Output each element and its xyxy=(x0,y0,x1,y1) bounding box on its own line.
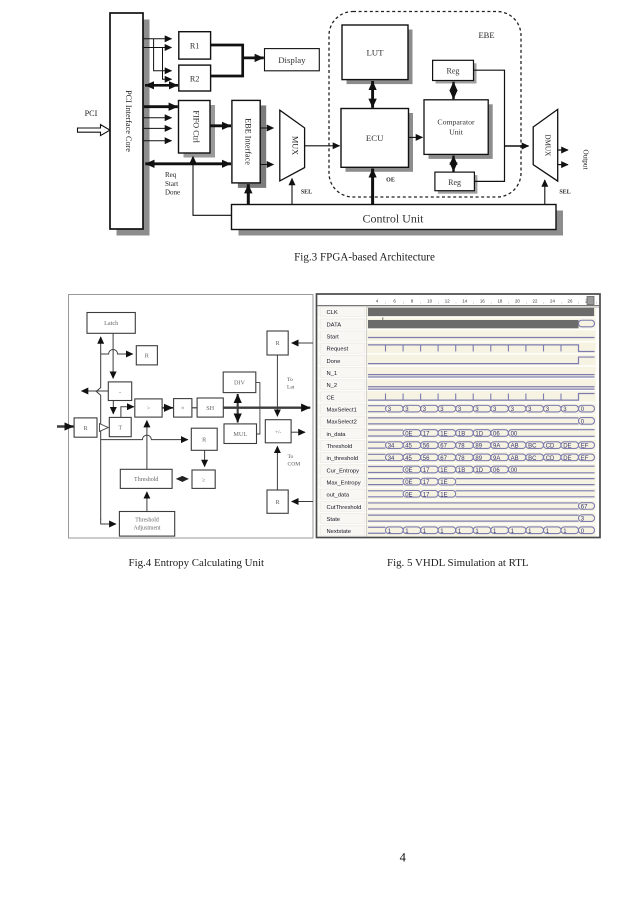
svg-text:in_data: in_data xyxy=(327,432,347,438)
svg-text:DE: DE xyxy=(563,456,571,462)
block ECU xyxy=(341,109,413,172)
wire R down to adder xyxy=(276,355,278,416)
svg-text:DE: DE xyxy=(563,444,571,450)
svg-text:,: , xyxy=(508,299,509,304)
block R1 xyxy=(179,32,211,59)
wire gt to multiplier xyxy=(162,407,173,409)
wire R middle down to gte xyxy=(204,450,206,466)
svg-text:20: 20 xyxy=(515,299,520,304)
svg-text:≥: ≥ xyxy=(202,477,205,483)
svg-text:1D: 1D xyxy=(475,468,483,474)
block DIV xyxy=(223,372,256,393)
block LUT xyxy=(342,25,413,84)
signal Threshold xyxy=(368,442,595,450)
block Comparator Unit xyxy=(424,100,493,159)
block R bottom right xyxy=(267,490,288,513)
wire Latch down to subtractor xyxy=(112,333,114,378)
wire EBE Interface to MUX 1 xyxy=(260,127,273,129)
svg-text:78: 78 xyxy=(458,444,465,450)
svg-text:DMUX: DMUX xyxy=(544,134,552,157)
wire FIFO to EBE Interface xyxy=(211,124,232,127)
svg-text:Done: Done xyxy=(327,359,341,365)
block R middle xyxy=(191,428,217,450)
block Threshold xyxy=(120,469,172,488)
wire branch to R2 input 1 xyxy=(154,39,172,71)
svg-text:CE: CE xyxy=(327,395,335,401)
block FIFO Ctrl xyxy=(179,101,216,158)
wire PCI core to R1 input 1 xyxy=(144,38,172,40)
label To Lat xyxy=(287,377,295,391)
svg-text:,: , xyxy=(543,299,544,304)
svg-text:MUL: MUL xyxy=(233,431,247,438)
svg-text:+/-: +/- xyxy=(275,429,282,435)
svg-text:ECU: ECU xyxy=(366,133,384,143)
svg-text:Max_Entropy: Max_Entropy xyxy=(327,480,361,486)
block R after latch xyxy=(136,346,157,365)
block Threshold Adjustment xyxy=(119,512,174,537)
block R to latch top right xyxy=(267,331,288,355)
svg-text:45: 45 xyxy=(405,444,412,450)
block Control Unit xyxy=(232,205,564,236)
svg-text:Start: Start xyxy=(327,335,340,341)
wire ECU to Comparator xyxy=(409,136,423,138)
fig5 signal names xyxy=(321,307,365,536)
svg-text:BC: BC xyxy=(528,444,537,450)
svg-text:,: , xyxy=(526,299,527,304)
svg-text:out_data: out_data xyxy=(327,493,350,499)
svg-text:26: 26 xyxy=(568,299,573,304)
signal in_data xyxy=(368,430,595,438)
svg-text:AB: AB xyxy=(511,444,519,450)
wire R1 R2 outputs join xyxy=(211,45,243,76)
svg-text:AB: AB xyxy=(511,456,519,462)
signal MaxSelect2 xyxy=(368,418,595,426)
signal MaxSelect1 xyxy=(368,405,595,413)
svg-text:,: , xyxy=(578,299,579,304)
signal Done xyxy=(368,357,595,364)
svg-text:SEL: SEL xyxy=(559,190,570,196)
svg-text:17: 17 xyxy=(423,480,430,486)
block multiplier xyxy=(174,399,192,418)
svg-text:CD: CD xyxy=(546,456,555,462)
svg-text:,: , xyxy=(473,299,474,304)
label SEL under DMUX xyxy=(559,190,570,196)
svg-text:MaxSelect2: MaxSelect2 xyxy=(327,420,357,426)
svg-text:in_threshold: in_threshold xyxy=(327,456,359,462)
svg-text:LUT: LUT xyxy=(366,48,384,58)
wire R bottom up to adder xyxy=(276,446,278,490)
svg-text:MUX: MUX xyxy=(291,136,300,155)
svg-text:Fig.3 FPGA-based Architecture: Fig.3 FPGA-based Architecture xyxy=(294,252,435,264)
wire multiplier to SH xyxy=(192,407,197,409)
caption Fig.3 xyxy=(294,252,435,264)
svg-text:CutThreshold: CutThreshold xyxy=(327,505,362,511)
svg-text:To: To xyxy=(287,377,293,383)
svg-text:Request: Request xyxy=(327,347,349,353)
svg-text:56: 56 xyxy=(423,456,430,462)
svg-text:FIFO Ctrl: FIFO Ctrl xyxy=(191,110,200,143)
wire Threshold gte bidirectional xyxy=(177,478,189,480)
signal N_1 xyxy=(368,375,595,377)
svg-text:17: 17 xyxy=(423,468,430,474)
svg-text:22: 22 xyxy=(533,299,538,304)
signal CLK xyxy=(368,308,594,316)
svg-text:16: 16 xyxy=(480,299,485,304)
signal N_2 xyxy=(368,387,595,389)
fig4 frame xyxy=(69,295,314,539)
svg-text:Control Unit: Control Unit xyxy=(362,212,424,226)
svg-text:24: 24 xyxy=(550,299,555,304)
block T xyxy=(109,417,131,436)
caption Fig.5 xyxy=(387,557,529,569)
wire Control Unit to DMUX select xyxy=(544,180,546,206)
block comparator gt xyxy=(135,399,162,417)
svg-text:PCI: PCI xyxy=(85,109,98,118)
svg-text:17: 17 xyxy=(423,492,430,498)
block subtractor xyxy=(108,382,131,401)
wire subtractor to T xyxy=(112,401,114,414)
svg-text:1B: 1B xyxy=(458,432,465,438)
svg-text:N_1: N_1 xyxy=(327,371,338,377)
svg-text:00: 00 xyxy=(511,468,518,474)
svg-text:10: 10 xyxy=(427,299,432,304)
svg-text:SH: SH xyxy=(206,405,214,412)
wire DIV MUL bidirectional xyxy=(237,394,239,423)
svg-text:89: 89 xyxy=(475,456,482,462)
open arrow R to T xyxy=(100,424,109,432)
signal State xyxy=(368,515,595,523)
label Output xyxy=(582,150,590,170)
wire subtractor output to left xyxy=(82,390,109,392)
svg-text:34: 34 xyxy=(388,456,395,462)
block SH xyxy=(197,398,223,417)
svg-text:,: , xyxy=(420,299,421,304)
mux MUX xyxy=(280,110,305,181)
svg-text:EF: EF xyxy=(581,456,589,462)
label SEL under MUX xyxy=(301,190,312,196)
svg-text:COM: COM xyxy=(288,462,301,468)
wire PCI core to FIFO thin 2 xyxy=(144,127,172,129)
caption Fig.4 xyxy=(129,557,265,569)
svg-text:OE: OE xyxy=(386,178,395,184)
svg-text:,: , xyxy=(561,299,562,304)
svg-text:BC: BC xyxy=(528,456,537,462)
svg-text:EBE: EBE xyxy=(478,30,494,40)
signal in_threshold xyxy=(368,454,595,462)
svg-text:PCI Interface Core: PCI Interface Core xyxy=(124,90,133,152)
wire PCI core to FIFO thin 3 xyxy=(144,140,172,142)
svg-text:DATA: DATA xyxy=(327,322,342,328)
svg-text:,: , xyxy=(490,299,491,304)
svg-text:34: 34 xyxy=(388,444,395,450)
fig5 frame xyxy=(317,294,601,538)
svg-text:78: 78 xyxy=(458,456,465,462)
svg-text:Threshold: Threshold xyxy=(134,477,158,483)
fig5 timeline header xyxy=(318,297,600,308)
wire branch to R2 input 2 xyxy=(163,48,172,80)
wire long branch to R middle with hop xyxy=(101,435,188,440)
svg-text:1E: 1E xyxy=(440,432,447,438)
svg-text:1E: 1E xyxy=(440,468,447,474)
svg-text:Display: Display xyxy=(278,55,306,65)
wire Comparator Reg bottom bidirectional xyxy=(452,156,454,172)
wire feedback up into Latch xyxy=(96,337,101,520)
svg-text:CLK: CLK xyxy=(327,310,338,316)
svg-text:45: 45 xyxy=(405,456,412,462)
svg-text:Reg: Reg xyxy=(448,178,461,187)
svg-text:Nextstate: Nextstate xyxy=(327,529,352,535)
svg-text:9A: 9A xyxy=(493,444,500,450)
signal CutThreshold xyxy=(368,503,595,511)
svg-text:Unit: Unit xyxy=(449,128,464,137)
wire Control Unit to EBE Interface xyxy=(247,184,250,205)
svg-text:,: , xyxy=(438,299,439,304)
wire FIFO to Control Unit xyxy=(193,157,232,216)
svg-text:R1: R1 xyxy=(190,42,200,51)
svg-text:12: 12 xyxy=(445,299,450,304)
svg-text:Reg: Reg xyxy=(447,67,460,76)
block Reg bottom xyxy=(435,172,478,194)
svg-text:N_2: N_2 xyxy=(327,383,338,389)
block gte comparator xyxy=(192,470,215,488)
svg-text:SEL: SEL xyxy=(301,190,312,196)
page number xyxy=(400,851,407,865)
block EBE Interface xyxy=(232,100,266,187)
svg-text:67: 67 xyxy=(440,456,447,462)
demux DMUX xyxy=(533,109,558,181)
label OE xyxy=(386,178,395,184)
svg-text:67: 67 xyxy=(440,444,447,450)
svg-text:0E: 0E xyxy=(405,480,412,486)
svg-text:Comparator: Comparator xyxy=(437,118,475,127)
svg-text:T: T xyxy=(118,424,122,431)
wire DIV MUL bracket xyxy=(256,383,260,434)
wire Control Unit to ECU xyxy=(371,169,374,206)
wire Reg top Comparator bidirectional xyxy=(452,82,454,99)
wire to DMUX xyxy=(505,145,529,147)
fig5 row separators xyxy=(318,317,596,524)
svg-text:Latch: Latch xyxy=(104,320,119,327)
svg-text:Threshold: Threshold xyxy=(327,444,353,450)
svg-text:14: 14 xyxy=(462,299,467,304)
block R input xyxy=(74,418,97,437)
wire to Display xyxy=(243,57,264,60)
svg-text:89: 89 xyxy=(475,444,482,450)
svg-text:06: 06 xyxy=(493,432,500,438)
wire bidirectional PCI core to R2 xyxy=(145,84,178,87)
signal Request xyxy=(368,345,595,352)
wire MUX to ECU xyxy=(305,145,340,147)
svg-text:State: State xyxy=(327,517,341,523)
svg-text:,: , xyxy=(596,299,597,304)
wire DMUX output 2 xyxy=(558,164,568,166)
svg-text:1B: 1B xyxy=(458,468,465,474)
wire T branch to comparator gt xyxy=(121,407,134,418)
svg-text:,: , xyxy=(385,299,386,304)
svg-text:EF: EF xyxy=(581,444,589,450)
svg-text:Adjustment: Adjustment xyxy=(133,526,160,532)
svg-text:56: 56 xyxy=(423,444,430,450)
svg-text:,: , xyxy=(403,299,404,304)
wire bidirectional PCI core to EBE Interface xyxy=(145,162,231,165)
svg-text:1E: 1E xyxy=(440,492,447,498)
svg-text:Fig.4 Entropy Calculating Unit: Fig.4 Entropy Calculating Unit xyxy=(129,557,265,569)
label Req Start Done xyxy=(165,171,180,197)
wire PCI core to R1 input 2 xyxy=(144,47,172,49)
svg-text:Req: Req xyxy=(165,171,177,179)
svg-text:18: 18 xyxy=(497,299,502,304)
signal Cur_Entropy xyxy=(368,466,595,474)
svg-text:Threshold: Threshold xyxy=(135,518,159,524)
wire branch to R register with hop xyxy=(101,350,133,355)
wire EBE Interface to MUX 2 xyxy=(260,164,273,166)
wire LUT ECU bidirectional xyxy=(371,81,374,108)
wire into R bottom right from frame xyxy=(292,501,313,503)
block MUL xyxy=(224,424,257,444)
svg-text:,: , xyxy=(455,299,456,304)
wire input arrow to R xyxy=(57,425,74,427)
svg-text:CD: CD xyxy=(546,444,555,450)
svg-text:MaxSelect1: MaxSelect1 xyxy=(327,408,357,414)
block Display xyxy=(265,49,320,71)
block Latch xyxy=(87,313,135,334)
svg-text:0E: 0E xyxy=(405,492,412,498)
dashed EBE region xyxy=(329,12,521,198)
wire main output thick xyxy=(223,407,310,409)
wire into R top right from frame xyxy=(292,342,313,344)
block R2 xyxy=(179,65,211,91)
signal Start xyxy=(368,337,595,339)
svg-text:To: To xyxy=(288,454,294,460)
wire DMUX output 1 xyxy=(558,149,568,151)
label PCI xyxy=(85,109,98,118)
svg-text:-: - xyxy=(119,388,121,395)
wire adder output right xyxy=(291,431,305,433)
wire Control Unit to MUX select xyxy=(291,179,293,206)
block adder subtractor xyxy=(265,420,291,443)
svg-text:>: > xyxy=(147,405,151,412)
svg-text:4: 4 xyxy=(400,851,407,865)
svg-text:DIV: DIV xyxy=(234,380,246,387)
svg-text:0E: 0E xyxy=(405,432,412,438)
wire Reg outputs join xyxy=(474,70,505,181)
fig5 waveform background xyxy=(318,307,596,537)
svg-text:EBE Interface: EBE Interface xyxy=(243,118,252,165)
svg-text:Lat: Lat xyxy=(287,385,295,391)
wire long feedback down to Threshold Adjustment xyxy=(101,520,116,525)
wire Threshold up to gt comparator xyxy=(146,421,148,470)
svg-text:×: × xyxy=(181,405,185,412)
label To COM xyxy=(288,454,301,468)
block Reg top xyxy=(433,60,477,83)
svg-text:1D: 1D xyxy=(475,432,483,438)
svg-text:1E: 1E xyxy=(440,480,447,486)
svg-text:R2: R2 xyxy=(190,75,200,84)
signal out_data xyxy=(368,491,595,499)
svg-text:17: 17 xyxy=(423,432,430,438)
svg-text:Fig. 5 VHDL Simulation at RTL: Fig. 5 VHDL Simulation at RTL xyxy=(387,557,529,569)
signal DATA xyxy=(368,317,595,328)
svg-text:00: 00 xyxy=(511,432,518,438)
svg-text:67: 67 xyxy=(581,504,588,510)
svg-text:Cur_Entropy: Cur_Entropy xyxy=(327,468,360,474)
svg-text:0E: 0E xyxy=(405,468,412,474)
wire Threshold Adjustment up to Threshold xyxy=(146,492,148,512)
signal CE xyxy=(368,394,595,401)
wire PCI core to FIFO thick xyxy=(144,105,178,108)
svg-text:Output: Output xyxy=(582,150,590,170)
signal Max_Entropy xyxy=(368,478,595,486)
svg-text:9A: 9A xyxy=(493,456,500,462)
fig5 name column divider xyxy=(366,307,368,537)
svg-text:06: 06 xyxy=(493,468,500,474)
signal Nextstate xyxy=(368,527,595,535)
wire PCI core to FIFO thin 1 xyxy=(144,117,172,119)
block PCI Interface Core xyxy=(110,13,150,236)
svg-text:Start: Start xyxy=(165,180,178,188)
svg-text:Done: Done xyxy=(165,189,180,197)
PCI input hollow arrow xyxy=(78,125,111,136)
